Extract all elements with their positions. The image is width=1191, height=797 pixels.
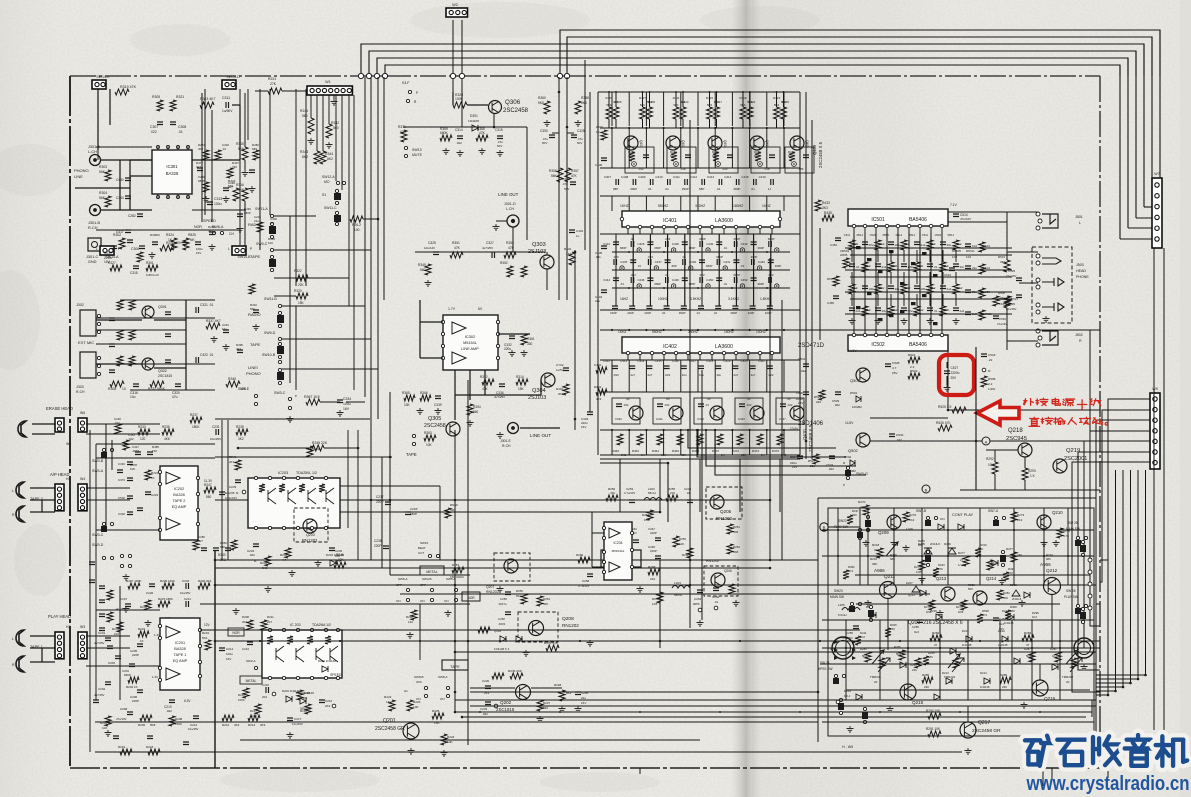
svg-text:1KB: 1KB [916,570,922,574]
svg-text:R279: R279 [956,605,963,609]
long vertical 7 [781,300,783,560]
bus wire right 1 [1159,30,1161,186]
svg-text:LINE OUT: LINE OUT [530,433,551,438]
svg-text:120: 120 [140,437,146,441]
svg-text:10K: 10K [988,463,995,467]
svg-text:R508: R508 [988,377,996,381]
svg-text:R293: R293 [1028,469,1036,473]
R220 resistor [243,688,249,698]
svg-text:Q409: Q409 [812,144,817,155]
bottom-left extra horizontals [96,609,160,611]
LINE OUT jack 2 [508,423,519,434]
capacitor C442 [752,259,755,265]
R522 resistor [908,373,920,379]
svg-text:ON: ON [440,697,445,701]
svg-text:1N4168: 1N4168 [468,119,479,123]
svg-text:10u/25V: 10u/25V [210,437,221,441]
svg-text:C213: C213 [242,647,249,651]
C210 cap [169,700,175,703]
svg-text:150K: 150K [175,722,182,726]
left vertical border inner [214,550,216,768]
svg-text:PHONO: PHONO [74,168,89,173]
svg-text:C435: C435 [620,260,627,264]
svg-text:R239: R239 [236,425,244,429]
C513 cap [949,268,955,271]
transistor Q403 [708,136,722,150]
svg-text:2SC2458 X 5: 2SC2458 X 5 [818,141,823,168]
svg-text:2u2: 2u2 [921,243,926,247]
connector W8 right [1150,393,1160,469]
R250 resistor [647,510,653,520]
svg-text:33u: 33u [960,265,965,269]
svg-text:C226: C226 [146,591,154,595]
eq mid grid lower [612,306,618,309]
svg-text:330: 330 [1000,260,1005,264]
svg-text:1K2: 1K2 [966,255,972,259]
svg-text:J301-D: J301-D [504,202,516,206]
svg-text:.01: .01 [637,264,641,268]
svg-text:350HZ: 350HZ [688,330,698,334]
C212 cap [193,716,199,719]
svg-text:C527: C527 [951,366,959,370]
svg-text:C402: C402 [594,363,602,367]
svg-text:SW11-A: SW11-A [255,207,268,211]
svg-text:5K1: 5K1 [516,594,522,598]
equalizer mesh verticals [611,128,613,168]
svg-text:5K6: 5K6 [581,101,587,105]
svg-text:.022: .022 [834,403,840,407]
svg-text:3K3: 3K3 [198,147,204,151]
svg-text:C282: C282 [128,214,136,218]
IC209 pins [268,628,271,631]
IC302 pins [441,320,444,323]
J302 jack [80,310,96,336]
svg-text:1K8: 1K8 [652,602,658,606]
svg-text:C308: C308 [178,125,186,129]
svg-text:H3: H3 [66,625,70,629]
R329 resistor bank [296,293,308,299]
R269 resistor [445,508,451,518]
svg-text:2SC2458 GR: 2SC2458 GR [972,728,1001,734]
capacitor C438 [683,259,686,265]
svg-text:10u/25V: 10u/25V [188,727,199,731]
svg-text:SW10-B: SW10-B [262,353,276,357]
top-left extra horizontals [96,146,152,148]
C332 R361 at IC302 [509,336,515,339]
svg-text:APSS SW: APSS SW [818,667,833,671]
svg-text:SW8-B: SW8-B [414,675,424,679]
svg-text:560: 560 [250,307,255,311]
svg-text:220P: 220P [132,653,139,657]
svg-text:330: 330 [232,165,237,169]
C525 C526 caps [1016,278,1022,281]
svg-text:R366: R366 [420,391,428,395]
svg-text:100u: 100u [908,265,915,269]
main wire y127 [403,126,527,128]
R322 resistor bank [296,275,308,281]
svg-text:R270 546: R270 546 [544,641,558,645]
svg-text:MO: MO [324,180,330,184]
svg-text:C415: C415 [741,175,749,179]
C231 cap [216,429,219,435]
svg-text:10K: 10K [413,705,419,709]
svg-text:IC204: IC204 [613,541,622,545]
svg-text:R282: R282 [932,631,940,635]
svg-text:47u/10V: 47u/10V [116,717,127,721]
capacitor C426 [647,242,653,245]
svg-text:C408: C408 [621,175,629,179]
long wire A [215,584,876,586]
svg-text:J502: J502 [1075,333,1083,337]
svg-text:R211: R211 [267,615,274,619]
capacitor C443 [768,260,774,263]
svg-text:R275: R275 [914,565,921,569]
svg-text:C433: C433 [615,417,622,421]
svg-text:R351: R351 [452,241,460,245]
svg-text:1K2: 1K2 [909,518,915,522]
bank column wire [289,216,291,383]
resistor R319 [115,89,129,95]
long vertical x382 [381,457,383,568]
svg-text:560: 560 [333,126,339,130]
svg-text:R224: R224 [447,735,455,739]
svg-text:16V: 16V [343,407,350,411]
long vertical 6 [769,258,771,560]
connector W2 [446,8,468,17]
more grounds scatter [123,606,130,612]
svg-text:W2: W2 [452,3,458,7]
svg-text:C437: C437 [655,260,662,264]
svg-text:R246: R246 [336,553,344,557]
svg-text:.0056: .0056 [132,449,140,453]
svg-text:330: 330 [893,264,898,268]
R292 resistor [992,462,998,474]
ap head symbol L [16,482,24,498]
svg-text:2K7: 2K7 [252,714,258,718]
svg-text:Q213: Q213 [908,593,915,597]
svg-text:C453: C453 [830,243,837,247]
svg-text:PLAY SW: PLAY SW [834,525,848,529]
svg-text:220P: 220P [650,549,657,553]
C237 cap right [385,502,391,505]
svg-text:CONT PLAY: CONT PLAY [952,513,974,517]
svg-text:.022: .022 [828,467,834,471]
equalizer top rail [598,91,800,93]
capacitor C444 [613,278,619,281]
svg-text:C374: C374 [118,478,125,482]
capacitor C431 [734,241,737,247]
IC202 opamp triangles [166,472,180,484]
eq bottom boxed clusters [612,398,640,424]
svg-text:B: B [925,488,928,493]
svg-text:Q209: Q209 [878,530,889,535]
mic amp Q302 [142,358,154,370]
equalizer mesh horizontals [600,127,800,129]
D207 D208 diodes [912,586,920,592]
M1 motor [832,637,854,659]
svg-text:W4: W4 [66,442,71,446]
left column mesh midleft [221,420,223,560]
svg-text:SW14-C: SW14-C [96,75,110,79]
svg-text:15K: 15K [298,301,305,305]
svg-text:.01: .01 [696,311,700,315]
svg-text:8K2: 8K2 [327,157,333,161]
svg-text:.01: .01 [705,403,709,407]
svg-text:C258: C258 [582,579,590,583]
svg-text:.022: .022 [623,403,629,407]
svg-text:2SC2001: 2SC2001 [1064,456,1087,462]
R308 resistor [110,381,124,387]
R204 resistor [105,716,111,726]
R278 resistor [987,560,993,570]
amp mid clutter grid [849,240,855,250]
svg-text:33u: 33u [895,287,900,291]
svg-text:10u: 10u [682,373,687,377]
svg-text:C313: C313 [214,197,222,201]
svg-text:100u: 100u [921,287,928,291]
mid wire y512 [340,511,660,513]
svg-text:180HZ: 180HZ [733,204,743,208]
red arrow [977,401,1019,425]
capacitor C446 [647,278,653,281]
C316 cap [133,384,139,387]
svg-text:10K: 10K [426,443,433,447]
svg-text:330: 330 [852,513,857,517]
svg-text:33u: 33u [947,243,952,247]
svg-text:EQ AMP: EQ AMP [173,659,188,663]
svg-text:R472: R472 [732,449,740,453]
schematic border right [1099,76,1101,768]
svg-text:330: 330 [945,308,950,312]
bus wire right 2 [1151,37,1153,196]
svg-text:R365: R365 [402,391,410,395]
svg-text:PHONE: PHONE [1076,275,1089,279]
svg-text:560: 560 [420,268,426,272]
svg-text:C452: C452 [741,278,748,282]
svg-text:2SC945: 2SC945 [1006,436,1027,442]
svg-text:Q218: Q218 [1008,428,1023,434]
svg-text:7.1V: 7.1V [950,203,958,207]
C402 cap left [563,368,569,371]
SW13 MUTE switch [404,146,407,149]
svg-text:680P: 680P [198,179,205,183]
svg-text:P: P [416,91,418,95]
svg-text:SPEED: SPEED [203,219,216,223]
TMR202 pot [1070,658,1082,672]
cap cluster box Q43 [751,147,780,173]
svg-text:1K2: 1K2 [880,242,885,246]
svg-text:2SC2458 GR: 2SC2458 GR [375,726,405,732]
svg-text:6.8K/LUX: 6.8K/LUX [146,273,159,277]
svg-text:1N4148 K 2: 1N4148 K 2 [494,647,510,651]
svg-text:R201: R201 [138,627,146,631]
R283 resistor [1022,635,1034,641]
C207 R205 row [125,604,131,607]
svg-text:ERASE HEAD: ERASE HEAD [46,406,73,411]
C320 cap [175,384,181,387]
svg-text:100u: 100u [869,287,876,291]
svg-text:R253: R253 [679,537,686,541]
svg-text:47K: 47K [454,246,461,250]
svg-text:C446: C446 [637,278,644,282]
C237 cap [111,246,117,249]
svg-text:Q210: Q210 [1052,510,1063,515]
svg-text:C407: C407 [604,175,612,179]
svg-text:R247: R247 [204,483,212,487]
svg-text:.022: .022 [128,437,134,441]
svg-text:H4: H4 [66,477,70,481]
svg-text:2SC1815: 2SC1815 [496,707,515,712]
capacitor C427 [666,241,669,247]
svg-text:C409: C409 [638,175,646,179]
svg-text:TAPE: TAPE [250,254,260,259]
svg-text:R241: R241 [300,109,308,113]
svg-text:560: 560 [302,114,308,118]
svg-text:25V: 25V [951,376,958,380]
TMR201 pot [878,658,890,672]
svg-text:R363: R363 [424,431,432,435]
svg-text:Q203: Q203 [306,533,315,537]
svg-text:33K: 33K [874,548,879,552]
svg-text:10K: 10K [447,740,453,744]
switch wires left [111,440,113,470]
svg-text:R268: R268 [406,615,413,619]
NOR box mid [462,592,480,601]
svg-text:C260: C260 [498,617,505,621]
svg-text:R352: R352 [500,261,508,265]
svg-text:.022: .022 [746,403,752,407]
svg-text:56K: 56K [551,174,558,178]
C250 cap [713,588,719,591]
long vertical 8 [1089,330,1091,560]
W2 connector wires [452,20,454,92]
play head symbol L [16,630,24,646]
svg-text:2K7: 2K7 [229,460,235,464]
svg-text:NOR: NOR [467,596,475,600]
svg-text:10u: 10u [716,373,721,377]
R203 resistor [117,622,123,632]
svg-text:SW13: SW13 [412,148,422,152]
long wire H [455,651,1096,653]
svg-text:R324: R324 [166,233,174,237]
svg-text:680: 680 [252,147,257,151]
svg-text:22u/16V: 22u/16V [1006,307,1017,311]
svg-text:RN1202: RN1202 [716,516,733,521]
motor contacts [834,640,838,644]
svg-text:680: 680 [928,655,933,659]
Q306 transistor [489,101,502,114]
svg-text:Q202: Q202 [500,700,512,705]
R288 diode row [922,677,933,683]
cap cluster box Q42 [709,147,738,173]
svg-text:Q209: Q209 [930,609,937,613]
transistor Q407 [669,406,683,420]
svg-text:IC201: IC201 [175,641,185,645]
connector W1 [307,86,352,95]
svg-text:R208: R208 [242,615,249,619]
svg-text:5K8: 5K8 [733,530,739,534]
cluster caps left of IC301 [125,178,131,181]
D203 diode [330,560,336,566]
svg-text:3K3: 3K3 [242,620,248,624]
svg-text:C207: C207 [120,597,128,601]
svg-text:R321: R321 [176,95,184,99]
W4 connector tape2 [78,484,87,511]
svg-text:LINE OUT: LINE OUT [498,192,519,197]
svg-text:10K: 10K [130,467,135,471]
svg-text:P: P [118,247,120,251]
svg-text:R233: R233 [138,425,146,429]
C216 R216 cluster [319,700,325,703]
svg-text:4.7u/10V: 4.7u/10V [624,491,635,495]
svg-text:SW4-B: SW4-B [422,577,432,581]
svg-text:SW9-C: SW9-C [256,242,268,246]
bank wires right 2 [282,338,371,340]
svg-text:C316: C316 [118,462,125,466]
R225 resistor [432,713,444,719]
capacitor C441 [733,260,739,263]
svg-text:14.8V: 14.8V [845,421,854,425]
svg-text:16V: 16V [581,425,586,429]
svg-text:R527: R527 [808,459,816,463]
svg-text:1J: 1J [768,187,772,191]
svg-text:47P: 47P [508,246,515,250]
C514 cap [953,214,959,217]
R290 15K resistor [928,713,941,719]
supply rail right of eq [819,228,821,340]
svg-text:L: L [12,489,14,493]
svg-text:J301-C: J301-C [86,255,98,259]
svg-text:C322 .01: C322 .01 [200,353,214,357]
R279 resistor [1011,552,1017,562]
svg-text:680P: 680P [244,211,251,215]
svg-text:R342: R342 [331,121,339,125]
svg-text:D501: D501 [850,391,858,395]
svg-text:680P: 680P [654,282,661,286]
C321 C322 caps [196,307,199,313]
svg-text:L: L [12,637,14,641]
svg-text:1K2: 1K2 [952,255,958,259]
R254b resistor [687,548,693,558]
svg-text:MAIN SW: MAIN SW [830,595,844,599]
more junction dots [454,499,457,502]
Q304 transistor [541,373,555,387]
R298 210 resistor [648,569,660,575]
R299 resistor [729,584,735,594]
svg-text:W9: W9 [1152,387,1157,391]
svg-text:ON: ON [940,517,945,521]
svg-text:10u: 10u [222,327,227,331]
C236 cap [329,548,335,551]
R234 C232 R240 row [128,583,140,589]
transistor Q402 [666,136,680,150]
svg-text:10u: 10u [130,395,136,399]
svg-text:C518: C518 [988,353,996,357]
cap cluster box Q41 [667,147,696,173]
svg-text:.01: .01 [934,309,938,313]
control gnds [863,540,870,546]
svg-text:R825: R825 [188,233,196,237]
svg-text:.01: .01 [662,311,666,315]
svg-text:D101 1N4148: D101 1N4148 [296,691,314,695]
R201 1K [138,631,149,637]
svg-text:METAL: METAL [426,570,437,574]
erase head connector W4b [78,418,87,432]
svg-text:R303: R303 [99,165,107,169]
svg-text:3K3: 3K3 [234,723,240,727]
svg-text:H1: H1 [404,689,408,693]
svg-text:R254: R254 [543,597,550,601]
